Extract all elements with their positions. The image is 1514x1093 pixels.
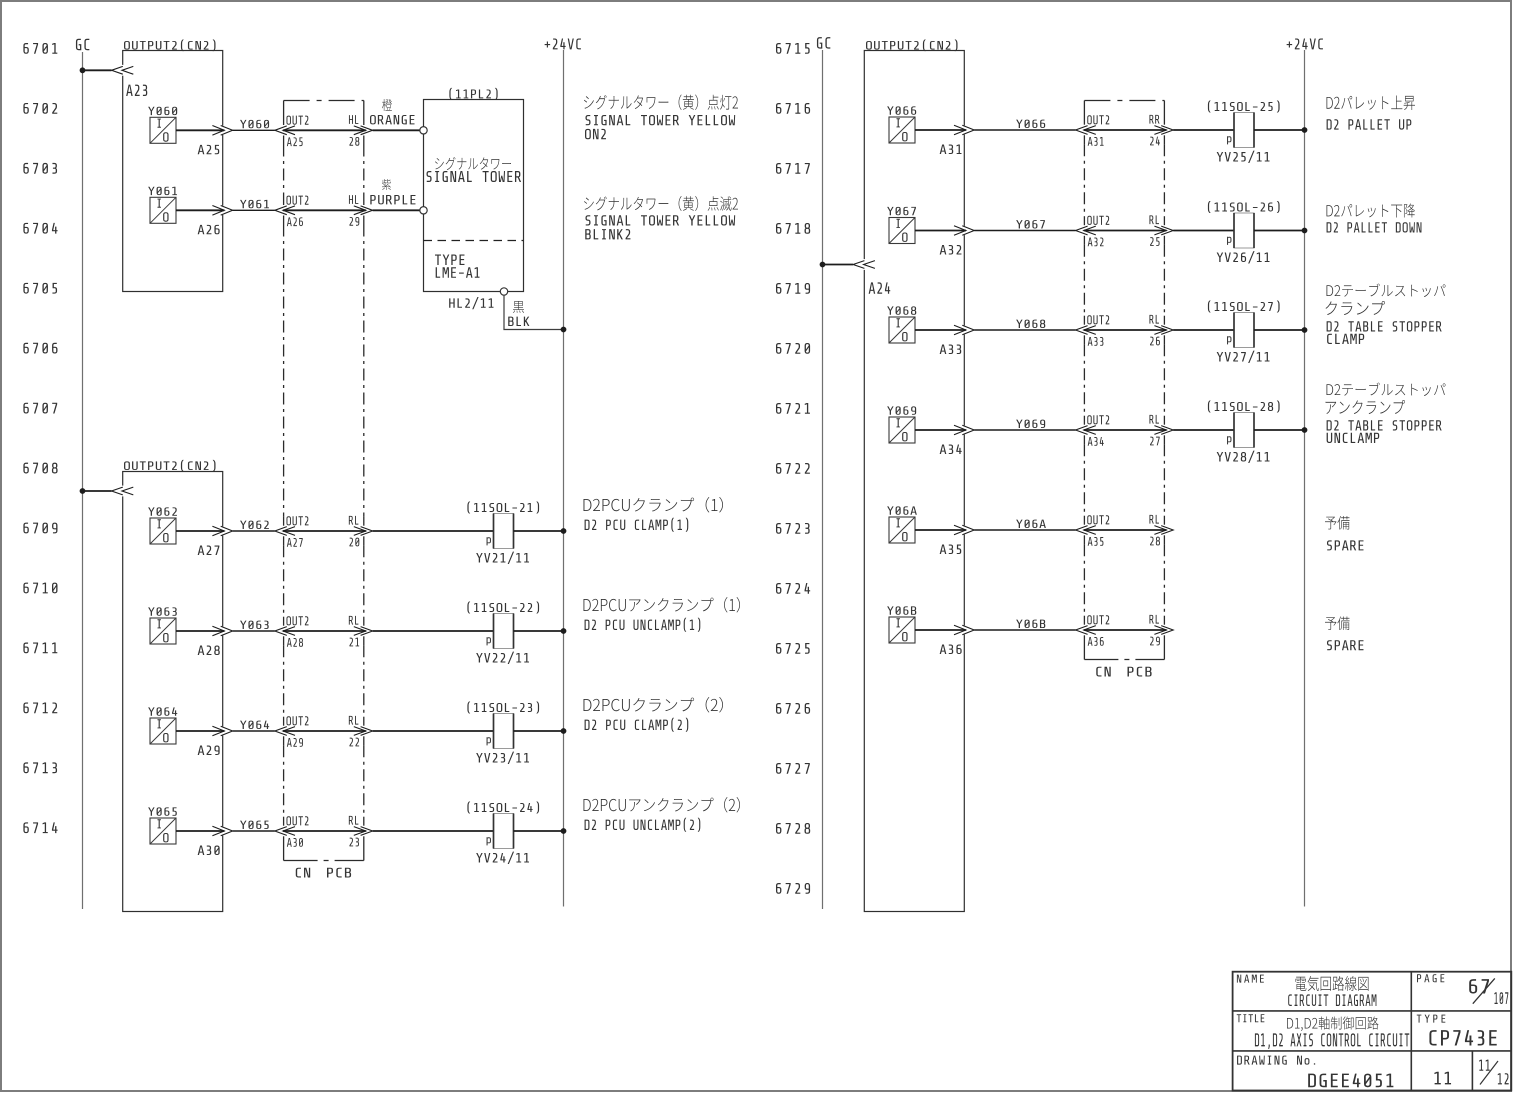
title block TITLE cell: D1,D2 axis control circuit [1237, 1014, 1410, 1049]
solenoid YV26/11 (11SOL-26) [1208, 201, 1280, 263]
junction on GC at A23 [80, 67, 86, 73]
I/O output Y069 pin A34 [887, 406, 962, 454]
wire CN PCB to solenoid YV26/11 [1173, 230, 1234, 232]
CN PCB pins OUT2/A29 and RL/22 [275, 716, 373, 747]
wire CN PCB to solenoid YV28/11 [1173, 429, 1234, 431]
I/O output Y06B pin A36 [887, 606, 962, 654]
CN PCB pins OUT2/A27 and RL/20 [275, 516, 373, 547]
label: signal tower yellow blink2 [584, 196, 738, 239]
CN PCB pins OUT2/A31 and RR/24 [1076, 115, 1174, 146]
wire solenoid YV28/11 to +24VC rail [1254, 429, 1305, 431]
wire Y064 from OUTPUT2 to CN PCB [176, 721, 275, 736]
I/O output Y061 pin A26 [148, 187, 220, 235]
wire Y065 from OUTPUT2 to CN PCB [176, 821, 275, 836]
label: D2 PCU CLAMP(1) [583, 497, 723, 532]
module box OUTPUT2(CN2) upper-left [123, 40, 223, 292]
I/O output Y066 pin A31 [887, 106, 961, 154]
connector box CN PCB (left page) [284, 101, 364, 878]
CN PCB pins OUT2/A26 and HL/29 [275, 195, 373, 226]
label: D2 table stopper unclamp [1325, 382, 1445, 443]
title block sheet number 11 [1434, 1072, 1451, 1085]
junction on +24VC [1302, 327, 1308, 333]
junction on GC at lower connector [80, 488, 86, 494]
wire HL2/11 black lead to +24VC [449, 295, 563, 329]
junction on +24VC [561, 828, 567, 834]
solenoid YV23/11 (11SOL-23) [467, 702, 539, 764]
label: D2 PCU UNCLAMP(2) [583, 797, 739, 832]
I/O output Y068 pin A33 [887, 306, 961, 354]
title block PAGE cell: 67/107 [1417, 974, 1508, 1004]
wire solenoid YV26/11 to +24VC rail [1254, 230, 1305, 232]
row line-number labels 6701-6714 [23, 43, 57, 833]
wire CN PCB to solenoid YV21/11 [373, 530, 494, 532]
connector pin (lower) from GC [83, 486, 134, 497]
junction on +24VC from HL2/11 [561, 327, 567, 333]
junction on +24VC [561, 628, 567, 634]
wire solenoid YV25/11 to +24VC rail [1254, 129, 1305, 131]
solenoid YV27/11 (11SOL-27) [1208, 301, 1280, 363]
CN PCB pins OUT2/A30 and RL/23 [275, 816, 373, 847]
junction on +24VC [1302, 127, 1308, 133]
label: spare (6723) [1325, 516, 1363, 550]
wire Y060 from OUTPUT2 to CN PCB [176, 120, 275, 135]
I/O output Y064 pin A29 [148, 707, 219, 755]
wire Y068 from OUTPUT2 to CN PCB [915, 320, 1076, 335]
wire CN PCB to solenoid YV27/11 [1173, 329, 1234, 331]
solenoid YV22/11 (11SOL-22) [467, 602, 539, 664]
CN PCB pins OUT2/A36 and RL/29 [1076, 615, 1174, 646]
wire Y06A from OUTPUT2 to CN PCB [915, 520, 1076, 535]
title block DRAWING No cell: DGEE4051 [1237, 1056, 1393, 1088]
junction on +24VC [1302, 427, 1308, 433]
CN PCB pins OUT2/A33 and RL/26 [1076, 315, 1174, 346]
net GC rail (left page) [76, 39, 89, 909]
wire solenoid YV21/11 to +24VC rail [514, 530, 564, 532]
title block sheet 11/12 [1479, 1060, 1508, 1085]
wire CN PCB to solenoid YV25/11 [1173, 129, 1234, 131]
net GC rail (right page) [817, 37, 830, 909]
I/O output Y06A pin A35 [887, 506, 961, 554]
connector pin A24 from GC [823, 259, 891, 294]
lamp colour label purple [370, 179, 415, 204]
label: D2 pallet down [1326, 203, 1421, 232]
title block frame [1233, 972, 1512, 1091]
solenoid YV24/11 (11SOL-24) [467, 802, 539, 864]
wire Y067 from OUTPUT2 to CN PCB [915, 220, 1076, 235]
solenoid YV28/11 (11SOL-28) [1208, 401, 1280, 463]
connector pin A23 from GC [83, 65, 148, 96]
wire Y060 to signal tower terminal [373, 129, 420, 131]
net +24VC rail (left page) [545, 38, 581, 906]
solenoid YV21/11 (11SOL-21) [467, 502, 539, 564]
wire Y069 from OUTPUT2 to CN PCB [915, 420, 1076, 435]
I/O output Y063 pin A28 [148, 607, 220, 655]
junction on +24VC [561, 728, 567, 734]
module box OUTPUT2(CN2) lower-left [123, 460, 223, 912]
junction on +24VC [561, 528, 567, 534]
wire Y066 from OUTPUT2 to CN PCB [915, 120, 1076, 135]
I/O output Y067 pin A32 [887, 207, 961, 255]
lamp colour label orange [370, 99, 414, 124]
wire Y061 to signal tower terminal [373, 209, 420, 211]
CN PCB pins OUT2/A25 and HL/28 [275, 115, 373, 146]
module box OUTPUT2(CN2) right page [864, 40, 964, 912]
I/O output Y065 pin A30 [148, 807, 220, 855]
label: spare (6725) [1325, 617, 1363, 651]
wire CN PCB to solenoid YV22/11 [373, 630, 494, 632]
junction on +24VC [1302, 228, 1308, 234]
label: D2 PCU CLAMP(2) [583, 697, 723, 732]
wire solenoid YV27/11 to +24VC rail [1254, 329, 1305, 331]
connector box CN PCB (right page) [1084, 101, 1164, 677]
CN PCB pins OUT2/A34 and RL/27 [1076, 415, 1174, 446]
row line-number labels 6715-6729 [776, 43, 810, 894]
CN PCB pins OUT2/A35 and RL/28 [1076, 515, 1174, 546]
lamp unit 11PL2 signal tower [420, 88, 524, 295]
wire CN PCB to solenoid YV24/11 [373, 830, 494, 832]
CN PCB pins OUT2/A28 and RL/21 [275, 616, 373, 647]
wire solenoid YV22/11 to +24VC rail [514, 630, 564, 632]
title block NAME cell: circuit diagram [1237, 975, 1377, 1006]
title block TYPE cell: CP743E [1417, 1015, 1497, 1046]
label: D2 pallet up [1327, 95, 1416, 129]
wire Y061 from OUTPUT2 to CN PCB [176, 200, 275, 215]
wire solenoid YV23/11 to +24VC rail [514, 730, 564, 732]
junction on GC at A24 [820, 262, 826, 268]
label: D2 table stopper clamp [1326, 283, 1446, 344]
wire Y063 from OUTPUT2 to CN PCB [176, 621, 275, 636]
net +24VC rail (right page) [1287, 38, 1323, 906]
wire CN PCB to solenoid YV23/11 [373, 730, 494, 732]
wire solenoid YV24/11 to +24VC rail [514, 830, 564, 832]
wire Y06B from OUTPUT2 to CN PCB [915, 620, 1076, 635]
label: signal tower yellow on2 [584, 95, 738, 140]
CN PCB pins OUT2/A32 and RL/25 [1076, 215, 1174, 246]
solenoid YV25/11 (11SOL-25) [1208, 101, 1280, 163]
I/O output Y062 pin A27 [148, 507, 219, 555]
wire Y062 from OUTPUT2 to CN PCB [176, 521, 275, 536]
label: D2 PCU UNCLAMP(1) [583, 597, 739, 632]
I/O output Y060 pin A25 [148, 107, 219, 155]
